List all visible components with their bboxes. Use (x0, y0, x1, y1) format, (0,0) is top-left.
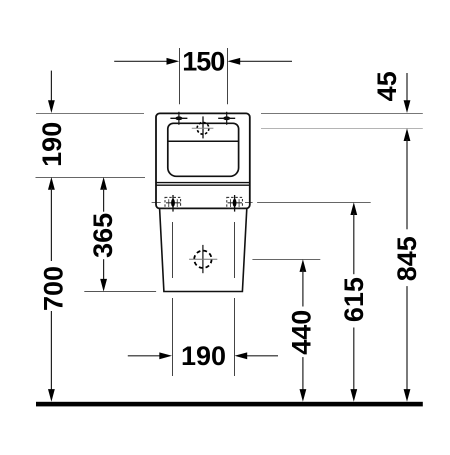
level tick right of box (bolt axis) (245, 202, 253, 204)
level line left (rim bottom) (36, 177, 146, 179)
rim lip line 1 (156, 182, 250, 184)
dim 150 arrow right (228, 58, 293, 65)
water inlet (dashed circle) (192, 116, 214, 138)
dim 150 extension lines (179, 48, 181, 104)
dim 150 arrow left (114, 58, 179, 65)
floor line (36, 402, 423, 407)
dim 45 arrow (down to top line) (404, 73, 411, 113)
svg-text:440: 440 (287, 310, 317, 355)
dim 190 left: down arrow at top line (48, 71, 55, 113)
level line right (inlet axis, light) (261, 128, 423, 130)
level line top-left (top of fixture) (36, 113, 144, 115)
svg-text:700: 700 (39, 266, 69, 311)
basin rim inner (168, 123, 239, 176)
urinal outer body (156, 113, 250, 208)
fixing bolt right (227, 195, 243, 212)
svg-text:190: 190 (181, 341, 226, 371)
dim 845 line with arrows (404, 128, 411, 402)
svg-text:45: 45 (372, 71, 402, 101)
dim 440 line with arrows (300, 259, 307, 402)
fixing bolt left (165, 195, 181, 212)
dim 615 line with arrows (350, 202, 357, 401)
level tick left (bolt axis) (152, 202, 161, 204)
level tick left (pedestal bottom / 365) (84, 291, 156, 293)
outlet (dashed circle) (189, 245, 217, 273)
svg-text:365: 365 (88, 213, 118, 258)
basin water line (168, 140, 238, 142)
svg-text:190: 190 (37, 122, 67, 167)
pedestal (160, 209, 247, 292)
svg-text:845: 845 (392, 236, 422, 281)
mounting hole right (218, 112, 235, 125)
level line right (outlet axis / 440) (252, 259, 320, 261)
dim 190 bottom extension lines (172, 298, 174, 376)
mounting hole left (170, 112, 187, 125)
svg-text:150: 150 (182, 46, 224, 76)
pedestal hidden edge right (234, 222, 236, 278)
svg-text:615: 615 (339, 277, 369, 322)
dim 700 line with arrows (48, 177, 55, 402)
level line top-right (top of fixture) (261, 113, 423, 115)
dim 365 line with arrows (100, 177, 107, 292)
dim 190 bottom arrow right (235, 352, 279, 359)
rim lip line 2 (156, 184, 250, 186)
level line right (bolt axis / 615) (257, 202, 371, 204)
pedestal hidden edge left (172, 222, 174, 278)
dim 190 bottom arrow left (128, 352, 172, 359)
